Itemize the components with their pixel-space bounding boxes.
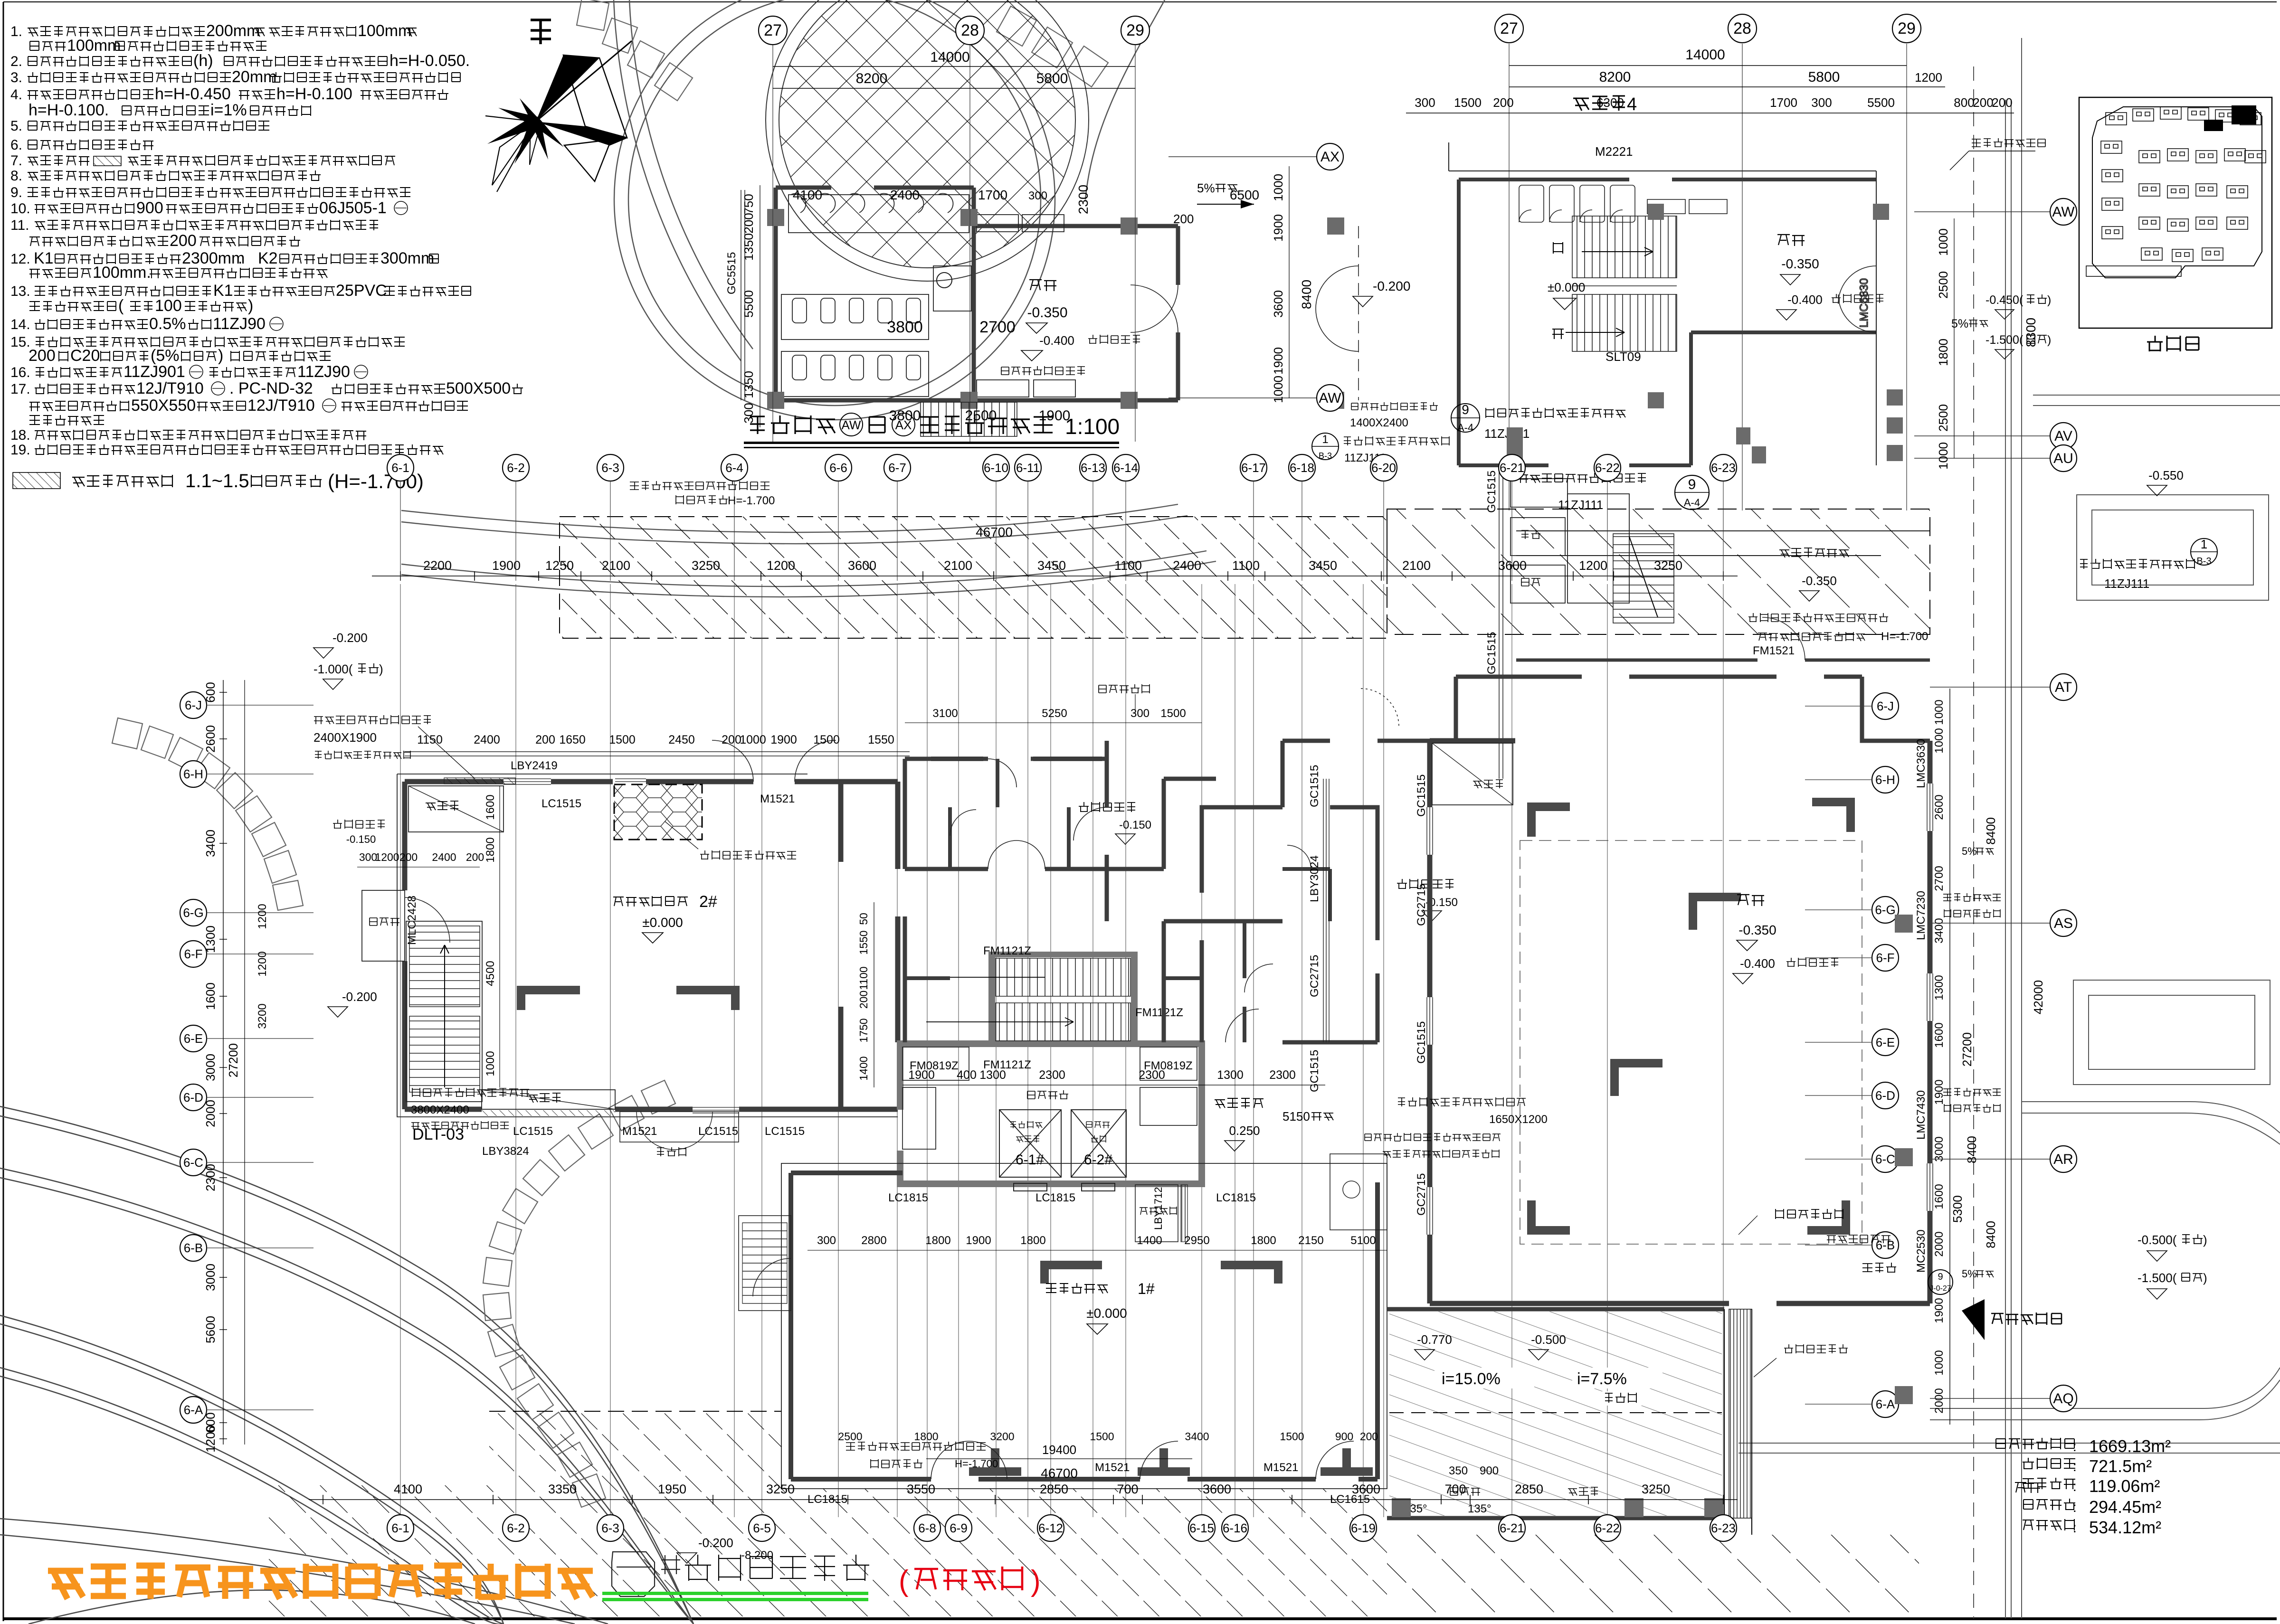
garage exit arrow xyxy=(1962,1299,1985,1340)
svg-text:1000: 1000 xyxy=(484,1051,497,1076)
svg-text:200: 200 xyxy=(1360,1430,1378,1443)
compass NE kite xyxy=(536,55,599,122)
svg-text:1300: 1300 xyxy=(979,1068,1006,1082)
svg-text:): ) xyxy=(2047,333,2051,347)
building 2 labels xyxy=(613,896,688,906)
svg-text:2.: 2. xyxy=(10,54,22,69)
svg-text:3450: 3450 xyxy=(1037,558,1066,573)
svg-text:1200: 1200 xyxy=(256,951,269,976)
svg-text:6-18: 6-18 xyxy=(1290,461,1314,475)
dim column between bld2 and core xyxy=(874,902,874,1087)
svg-text:1000: 1000 xyxy=(1271,376,1285,403)
svg-text:200: 200 xyxy=(399,851,418,863)
window arcs right edge xyxy=(1838,266,1876,332)
svg-text:1600: 1600 xyxy=(203,982,218,1010)
svg-text:15.: 15. xyxy=(10,334,30,350)
svg-text:): ) xyxy=(218,347,223,365)
svg-text:1000: 1000 xyxy=(1933,728,1946,753)
door arcs bottom xyxy=(931,1441,1354,1479)
svg-text:750: 750 xyxy=(741,194,756,214)
svg-text:LC1515: LC1515 xyxy=(541,797,581,810)
left dim chain xyxy=(223,680,224,1445)
area statistics block xyxy=(1996,1438,2074,1449)
landscape pool rectangles xyxy=(2073,495,2270,1085)
svg-text:6-G: 6-G xyxy=(1875,903,1895,917)
svg-text:LC1515: LC1515 xyxy=(698,1125,738,1138)
svg-text:-0.400: -0.400 xyxy=(1740,956,1775,971)
svg-text:LC1815: LC1815 xyxy=(1216,1191,1256,1204)
svg-text:6-14: 6-14 xyxy=(1113,461,1138,475)
svg-text:M1521: M1521 xyxy=(1095,1461,1130,1474)
svg-text:GC1515: GC1515 xyxy=(1485,471,1498,513)
svg-text:1550: 1550 xyxy=(857,930,870,954)
svg-text:42000: 42000 xyxy=(2031,980,2045,1014)
svg-text:1669.13m²: 1669.13m² xyxy=(2089,1436,2171,1456)
svg-text:3000: 3000 xyxy=(203,1054,218,1081)
basement slab hatch band upper xyxy=(560,517,1387,638)
svg-text:1800: 1800 xyxy=(1251,1234,1276,1247)
svg-text:294.45m²: 294.45m² xyxy=(2089,1497,2161,1517)
svg-text:27: 27 xyxy=(764,21,782,39)
svg-text:700: 700 xyxy=(1117,1482,1138,1496)
svg-text:4: 4 xyxy=(1627,94,1637,114)
svg-text:3600: 3600 xyxy=(1498,558,1527,573)
svg-text:1350: 1350 xyxy=(741,371,756,398)
svg-text:. PC-ND-32: . PC-ND-32 xyxy=(229,379,313,397)
ramp labels xyxy=(1434,1368,1534,1388)
svg-text:2600: 2600 xyxy=(203,725,218,753)
AX AW axis bubbles (podium) xyxy=(1168,156,1317,157)
svg-text:h=H-0.100: h=H-0.100 xyxy=(276,85,352,103)
second floor entry label xyxy=(1779,548,1849,557)
ramp walls xyxy=(1387,1309,1724,1518)
svg-text:1900: 1900 xyxy=(1933,1298,1946,1323)
svg-text:1900: 1900 xyxy=(1271,214,1285,242)
svg-text:700: 700 xyxy=(1444,1482,1466,1496)
svg-text:1.1~1.5: 1.1~1.5 xyxy=(185,471,249,491)
svg-text:9: 9 xyxy=(1938,1272,1943,1282)
svg-text:AX: AX xyxy=(1320,149,1339,165)
svg-text:1150: 1150 xyxy=(417,733,443,746)
svg-text:FM1121Z: FM1121Z xyxy=(983,944,1031,957)
svg-text:6-5: 6-5 xyxy=(753,1521,771,1535)
svg-text:-0.500(: -0.500( xyxy=(2137,1233,2177,1247)
svg-text:6-A: 6-A xyxy=(184,1403,203,1417)
svg-text:6-D: 6-D xyxy=(1875,1088,1895,1103)
svg-text:-0.200: -0.200 xyxy=(1373,279,1410,293)
svg-text:3800X2400: 3800X2400 xyxy=(411,1104,469,1116)
upper-left annotation 3 lines xyxy=(314,715,431,724)
svg-text:1650: 1650 xyxy=(559,733,586,746)
svg-text:6-D: 6-D xyxy=(183,1090,203,1105)
annotation upper AC board xyxy=(1001,366,1085,375)
podium west window column xyxy=(741,190,745,400)
site map label xyxy=(2147,336,2199,351)
svg-text:AW: AW xyxy=(1319,390,1341,406)
svg-text:2200: 2200 xyxy=(423,558,452,573)
svg-text::: : xyxy=(2073,1479,2077,1494)
svg-text:29: 29 xyxy=(1898,19,1916,38)
road ring circles around podium plan xyxy=(614,0,1055,420)
svg-text:LBY3824: LBY3824 xyxy=(482,1145,529,1158)
svg-text:6-H: 6-H xyxy=(183,767,203,781)
svg-text:1500: 1500 xyxy=(1160,707,1186,720)
second-floor entry hatch band right xyxy=(1387,509,1930,634)
extra unit partition walls xyxy=(905,759,1330,1042)
svg-text:1600: 1600 xyxy=(1933,1022,1946,1048)
svg-text:1000: 1000 xyxy=(740,733,766,746)
svg-text:2400: 2400 xyxy=(890,188,920,202)
upper units window marks xyxy=(931,757,1102,761)
svg-text:1900: 1900 xyxy=(1271,347,1285,375)
svg-text:1500: 1500 xyxy=(609,733,636,746)
svg-text:11ZJ90: 11ZJ90 xyxy=(297,363,350,381)
svg-text:5%: 5% xyxy=(1962,845,1977,857)
svg-text:14.: 14. xyxy=(10,317,30,332)
door M1521 top xyxy=(712,740,753,782)
svg-text:1000: 1000 xyxy=(1933,1350,1946,1375)
svg-text:900: 900 xyxy=(136,199,163,217)
svg-text:900: 900 xyxy=(1335,1430,1353,1443)
svg-text:0.250: 0.250 xyxy=(1229,1124,1260,1138)
svg-text:1600: 1600 xyxy=(1933,1184,1946,1209)
svg-text:B-3: B-3 xyxy=(1319,451,1332,461)
svg-text:1900: 1900 xyxy=(770,733,797,746)
svg-text:1200: 1200 xyxy=(375,851,399,863)
svg-text:±0.000: ±0.000 xyxy=(1086,1306,1127,1321)
svg-text:6-J: 6-J xyxy=(1877,699,1894,713)
svg-text:1400X2400: 1400X2400 xyxy=(1350,416,1408,429)
sunken slab hex region xyxy=(614,784,702,840)
svg-text:3600: 3600 xyxy=(1203,1482,1231,1496)
svg-text:2400X1900: 2400X1900 xyxy=(313,730,377,745)
svg-text:M1521: M1521 xyxy=(760,793,795,805)
svg-text:400: 400 xyxy=(957,1068,977,1082)
shop corner brackets xyxy=(1527,798,1855,1235)
svg-text:11ZJ90: 11ZJ90 xyxy=(213,315,266,333)
svg-text:3250: 3250 xyxy=(692,558,720,573)
svg-text:6-21: 6-21 xyxy=(1500,1521,1524,1535)
svg-text:2100: 2100 xyxy=(1402,558,1431,573)
svg-text:6-C: 6-C xyxy=(183,1155,203,1170)
svg-text:-0.150: -0.150 xyxy=(1119,819,1151,831)
top chain dimension row xyxy=(372,576,1738,576)
svg-text::: : xyxy=(2073,1500,2077,1515)
svg-text:3100: 3100 xyxy=(932,707,958,720)
svg-text:5800: 5800 xyxy=(1808,69,1840,85)
main title orange xyxy=(48,1564,593,1599)
GC1515 window column xyxy=(1499,469,1503,779)
road curves upper-left corner xyxy=(614,0,1165,361)
bottom basement hatch main xyxy=(489,1411,781,1616)
svg-text:13.: 13. xyxy=(10,283,30,299)
svg-text:135°: 135° xyxy=(1468,1502,1491,1515)
MLC2428 entry porch xyxy=(362,890,405,961)
building1 labels xyxy=(1046,1283,1108,1294)
svg-text:±0.000: ±0.000 xyxy=(1548,280,1585,294)
svg-text:AQ: AQ xyxy=(2053,1391,2073,1407)
svg-text:6-1#: 6-1# xyxy=(1016,1152,1044,1168)
east colonnade columns xyxy=(1873,204,1889,220)
right fragment axis bubbles AW AV AU xyxy=(1914,211,2050,212)
svg-text:4100: 4100 xyxy=(793,188,822,202)
svg-text:6-E: 6-E xyxy=(184,1031,203,1046)
svg-text:i=15.0%: i=15.0% xyxy=(1442,1370,1501,1388)
wall joint note right xyxy=(2080,559,2194,569)
svg-text:GC1515: GC1515 xyxy=(1415,1021,1428,1064)
svg-text:2300: 2300 xyxy=(1076,185,1091,214)
svg-text:GC2715: GC2715 xyxy=(1308,955,1321,997)
svg-text:9.: 9. xyxy=(10,185,22,200)
svg-text:300: 300 xyxy=(1028,189,1047,202)
svg-text:6-23: 6-23 xyxy=(1711,1521,1736,1535)
small wc room right of building1 xyxy=(1330,1154,1387,1230)
svg-text:3200: 3200 xyxy=(990,1430,1014,1443)
shop building outline xyxy=(1430,741,1930,1303)
svg-text:-0.200: -0.200 xyxy=(332,631,368,645)
svg-text:LC1815: LC1815 xyxy=(888,1191,928,1204)
svg-text:H=-1.700: H=-1.700 xyxy=(1881,630,1928,643)
svg-text:200: 200 xyxy=(170,232,197,250)
right axis bubbles 6-A..6-J xyxy=(1872,693,1899,719)
svg-text:11ZJ111: 11ZJ111 xyxy=(2104,576,2149,591)
svg-text:-0.150: -0.150 xyxy=(346,833,376,845)
axis bubbles 27 28 29 (podium) xyxy=(772,45,773,442)
svg-text:-0.350: -0.350 xyxy=(1802,574,1837,588)
FM room boxes xyxy=(902,1047,1197,1149)
svg-text:6-22: 6-22 xyxy=(1595,461,1620,475)
svg-text:8400: 8400 xyxy=(1984,817,1998,845)
svg-text:6-B: 6-B xyxy=(184,1241,203,1255)
podium inner partitions xyxy=(781,194,1075,397)
svg-text:500X500: 500X500 xyxy=(446,379,511,397)
svg-text:LC1515: LC1515 xyxy=(765,1125,805,1138)
svg-text:2100: 2100 xyxy=(944,558,972,573)
svg-text:6-3: 6-3 xyxy=(601,461,619,475)
svg-text:4.: 4. xyxy=(10,87,22,103)
svg-text:3250: 3250 xyxy=(1642,1482,1670,1496)
svg-text:2300: 2300 xyxy=(203,1164,218,1191)
svg-text:3000: 3000 xyxy=(1933,1136,1946,1161)
svg-text:600: 600 xyxy=(203,682,218,702)
svg-text:-0.400: -0.400 xyxy=(1039,333,1074,348)
building 1 outline xyxy=(791,1173,1377,1479)
svg-text:200: 200 xyxy=(741,213,756,233)
svg-text:300: 300 xyxy=(1811,95,1832,110)
svg-text:6-F: 6-F xyxy=(184,947,203,961)
svg-text:6-8: 6-8 xyxy=(918,1521,936,1535)
svg-text:1.: 1. xyxy=(10,24,22,39)
svg-text:12.: 12. xyxy=(10,251,30,267)
svg-text:1000: 1000 xyxy=(1271,174,1285,201)
svg-text:8200: 8200 xyxy=(1599,69,1631,85)
entry hall xyxy=(1215,1098,1263,1108)
svg-text:-0.770: -0.770 xyxy=(1417,1332,1452,1347)
joint note lower xyxy=(1518,473,1646,483)
svg-text:2000: 2000 xyxy=(203,1100,218,1127)
building 2 outline xyxy=(405,782,898,1109)
svg-text:1300: 1300 xyxy=(1217,1068,1244,1082)
svg-text:200: 200 xyxy=(1493,95,1513,110)
svg-text:300: 300 xyxy=(1415,95,1435,110)
svg-text:5500: 5500 xyxy=(741,290,756,318)
svg-text:3450: 3450 xyxy=(1309,558,1337,573)
svg-text:5150: 5150 xyxy=(1282,1109,1310,1124)
svg-text:100mm.: 100mm. xyxy=(93,264,151,282)
svg-text:LBY1712: LBY1712 xyxy=(1152,1187,1164,1230)
svg-text:2450: 2450 xyxy=(668,733,695,746)
svg-text:3250: 3250 xyxy=(766,1482,795,1496)
band corridor lines xyxy=(1516,531,1930,556)
svg-text:AT: AT xyxy=(2055,680,2072,695)
svg-text:11ZJ901: 11ZJ901 xyxy=(123,363,185,381)
svg-text:3350: 3350 xyxy=(548,1482,577,1496)
svg-text:300: 300 xyxy=(741,403,756,423)
podium door arcs right shop xyxy=(1130,226,1358,400)
podium columns xyxy=(767,209,784,226)
svg-text:GC2715: GC2715 xyxy=(1415,884,1428,926)
svg-text:2500: 2500 xyxy=(965,408,997,424)
svg-text:6-11: 6-11 xyxy=(1016,461,1040,475)
svg-text:-8.200: -8.200 xyxy=(741,1549,773,1562)
svg-text::: : xyxy=(2073,1439,2077,1454)
svg-text:): ) xyxy=(248,297,253,315)
svg-text:4500: 4500 xyxy=(484,961,497,986)
svg-text:-1.000(: -1.000( xyxy=(313,662,353,676)
svg-text:2850: 2850 xyxy=(1040,1482,1068,1496)
fire wall note xyxy=(1776,1209,1843,1219)
svg-text:2000: 2000 xyxy=(1933,1231,1946,1256)
svg-text:14000: 14000 xyxy=(1685,47,1725,63)
svg-text:721.5m²: 721.5m² xyxy=(2089,1456,2152,1476)
svg-text:200: 200 xyxy=(1992,95,2012,110)
svg-text:6-A: 6-A xyxy=(1876,1397,1895,1411)
svg-text:1900: 1900 xyxy=(966,1234,991,1247)
svg-text:2850: 2850 xyxy=(1515,1482,1543,1496)
fragment labels xyxy=(1573,96,1625,111)
svg-text:2400: 2400 xyxy=(1173,558,1201,573)
svg-text:5300: 5300 xyxy=(1950,1195,1965,1223)
svg-text:1800: 1800 xyxy=(1020,1234,1045,1247)
height-transition notes right edge xyxy=(1943,893,2001,901)
inner window band column x2790 xyxy=(1323,779,1329,1042)
ramp columns xyxy=(1392,1498,1411,1517)
svg-text:±0.000: ±0.000 xyxy=(642,915,683,930)
svg-text:AR: AR xyxy=(2053,1152,2073,1167)
svg-text:46700: 46700 xyxy=(1041,1466,1078,1481)
unit door arcs xyxy=(950,810,1311,992)
svg-text:28: 28 xyxy=(1733,19,1751,38)
stair-core fragment axis bubbles 27 28 29 xyxy=(1509,44,1510,510)
svg-text:1200: 1200 xyxy=(1915,70,1942,85)
svg-text:1100: 1100 xyxy=(857,966,870,990)
svg-text:2300: 2300 xyxy=(1039,1068,1065,1082)
svg-text:6-3: 6-3 xyxy=(601,1521,619,1535)
middle unit partition walls xyxy=(905,741,1430,1042)
porch window annotation left xyxy=(412,1088,529,1097)
svg-text:550X550: 550X550 xyxy=(131,397,196,415)
svg-text:GC1515: GC1515 xyxy=(1308,1050,1321,1092)
right dim chain xyxy=(1949,689,1950,1425)
svg-text:2950: 2950 xyxy=(1184,1234,1209,1247)
svg-text:8400: 8400 xyxy=(1299,280,1314,309)
building 2 interior L columns xyxy=(517,986,580,1010)
svg-text:12J/T910: 12J/T910 xyxy=(136,379,204,397)
pressurized shaft xyxy=(1135,1185,1178,1242)
bottom bubbles row xyxy=(387,1515,414,1541)
svg-text:1800: 1800 xyxy=(1936,339,1950,366)
svg-text:1900: 1900 xyxy=(908,1068,935,1082)
svg-text:6-1: 6-1 xyxy=(391,461,409,475)
svg-text:200: 200 xyxy=(28,347,56,365)
main plan vertical grid lines xyxy=(400,584,1723,1517)
svg-text:-0.450(: -0.450( xyxy=(1985,293,2023,307)
svg-text:6-C: 6-C xyxy=(1875,1152,1895,1166)
svg-text:6-1: 6-1 xyxy=(391,1521,409,1535)
building1 interior marks xyxy=(1040,1261,1102,1284)
svg-text:6-2: 6-2 xyxy=(507,1521,525,1535)
svg-text:1800: 1800 xyxy=(484,837,497,862)
svg-text:DLT-03: DLT-03 xyxy=(412,1125,464,1143)
svg-text:h=H-0.050.: h=H-0.050. xyxy=(389,52,470,70)
podium entrance stair xyxy=(921,402,1017,436)
road S-curves through top hatch band xyxy=(401,504,1216,597)
svg-text:K2: K2 xyxy=(258,249,278,267)
svg-text:300mm: 300mm xyxy=(380,249,434,267)
svg-text:100mm: 100mm xyxy=(67,37,121,55)
shop labels xyxy=(1737,895,1764,906)
svg-text:16.: 16. xyxy=(10,365,30,380)
svg-text:6-G: 6-G xyxy=(183,906,203,920)
svg-text:): ) xyxy=(2203,1271,2207,1285)
svg-text:1500: 1500 xyxy=(1454,95,1482,110)
svg-text:1100: 1100 xyxy=(1232,558,1260,573)
svg-text:2500: 2500 xyxy=(838,1430,862,1443)
svg-text:AU: AU xyxy=(2053,451,2073,466)
svg-text:M1521: M1521 xyxy=(1263,1461,1298,1474)
svg-text:5%: 5% xyxy=(1951,317,1968,330)
building1 bottom T-columns xyxy=(969,1448,1021,1476)
svg-text:6500: 6500 xyxy=(1230,188,1259,202)
svg-text:46700: 46700 xyxy=(976,525,1013,539)
bottom dimension chain xyxy=(309,1499,1738,1500)
svg-text:3400: 3400 xyxy=(1933,918,1946,943)
svg-text:2500: 2500 xyxy=(1936,271,1950,299)
svg-text:2300: 2300 xyxy=(1269,1068,1296,1082)
svg-text:14000: 14000 xyxy=(930,49,969,65)
svg-text:2700: 2700 xyxy=(979,318,1016,336)
svg-text:1550: 1550 xyxy=(868,733,894,746)
svg-text:h=H-0.100.: h=H-0.100. xyxy=(28,101,109,119)
svg-text:3550: 3550 xyxy=(907,1482,935,1496)
svg-text:1250: 1250 xyxy=(545,558,574,573)
svg-text:6-13: 6-13 xyxy=(1081,461,1105,475)
svg-text:AW: AW xyxy=(2052,204,2075,220)
svg-text:300: 300 xyxy=(817,1234,836,1247)
svg-text:GC2715: GC2715 xyxy=(1415,1173,1428,1216)
svg-text:H=-1.700: H=-1.700 xyxy=(728,494,775,507)
svg-text:6-21: 6-21 xyxy=(1500,461,1524,475)
svg-text:6-9: 6-9 xyxy=(950,1521,968,1535)
svg-text:3800: 3800 xyxy=(889,408,921,424)
svg-text:5%: 5% xyxy=(1962,1268,1977,1280)
svg-text:GC1515: GC1515 xyxy=(1485,632,1498,674)
svg-text:27200: 27200 xyxy=(226,1043,240,1077)
svg-text:-0.350: -0.350 xyxy=(1027,305,1067,321)
svg-text:200mm: 200mm xyxy=(206,22,260,40)
svg-text::: : xyxy=(2073,1520,2077,1536)
svg-text:200: 200 xyxy=(535,733,555,746)
